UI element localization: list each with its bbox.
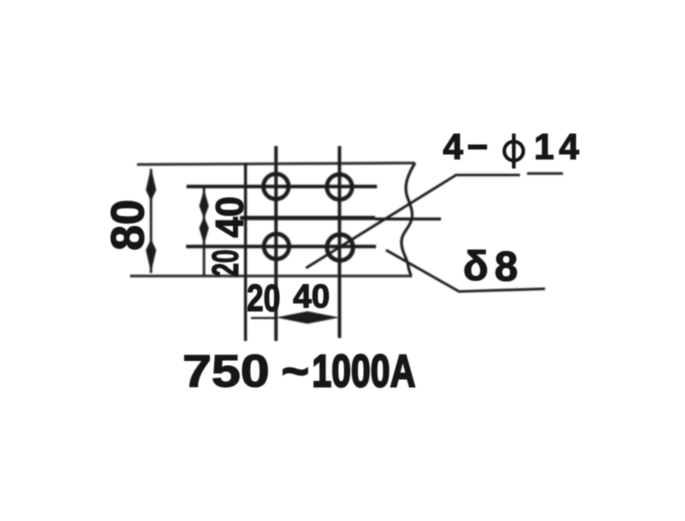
svg-text:40: 40 (209, 196, 252, 237)
svg-text:δ8: δ8 (463, 243, 524, 290)
svg-text:14: 14 (534, 126, 584, 167)
svg-text:20: 20 (247, 278, 281, 320)
svg-text:20: 20 (205, 249, 246, 276)
svg-text:750: 750 (183, 347, 270, 397)
svg-text:4−: 4− (443, 126, 492, 167)
svg-text:80: 80 (102, 199, 154, 250)
svg-text:1000A: 1000A (312, 345, 415, 396)
svg-text:~: ~ (282, 346, 310, 397)
svg-text:40: 40 (293, 278, 330, 315)
